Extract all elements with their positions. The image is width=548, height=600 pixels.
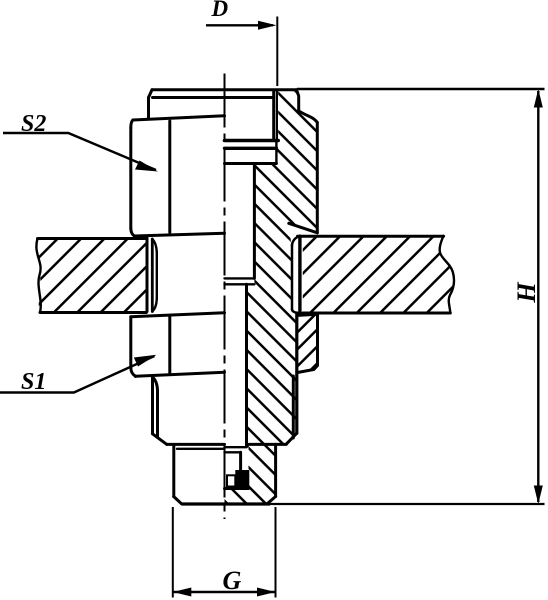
dimension D line [206,24,273,26]
stud bottom-right chamfer (section) [267,497,275,504]
stud step face right [247,443,287,446]
thread runout bottom-left [152,299,157,312]
hex S2 top edge (left view) [133,116,225,120]
stud bottom face [182,502,271,505]
hex S2 top-left corner arc [131,120,133,128]
panel right bottom edge [303,312,451,315]
S1 nut left edge [129,317,132,368]
stud right edge (section) [274,444,277,496]
top port recess edge [275,141,277,164]
arrowhead D (points right) [258,21,277,30]
hex S2 left edge [129,128,132,229]
orifice slot outline [227,475,235,486]
panel left bottom edge [40,311,146,314]
top boss left edge [147,98,150,118]
svg-text:G: G [223,566,242,595]
thread runout top-right [292,237,298,245]
arrowhead G right (points right) [257,588,276,597]
top port bore line (internal thread minor) [272,90,275,141]
shank thread major left [151,239,154,312]
svg-text:H: H [512,282,541,304]
bottom port step line 1 [225,446,247,448]
hex S2 bottom-left corner arc [131,229,135,237]
S1 nut section outline [298,314,318,372]
shoulder curve to hex flat (section) [299,111,318,123]
panel left break line [36,239,40,313]
hex S2 facet line [168,121,171,233]
top chamfer ring line [153,96,274,99]
stud left edge [172,446,175,497]
S1 nut section hatch (right half) [298,314,318,372]
thread runout top-left [152,239,157,252]
hex S2 bottom diagonal (section undercut) [289,223,318,233]
S1 nut facet line [168,316,171,375]
thread runout bottom-right [292,310,298,314]
arrowhead H top (points up) [534,89,543,108]
stud step face left [167,443,225,446]
panel left section hatch [36,239,146,313]
S1 nut bottom edge (left view) [136,372,225,376]
hex S2 right edge (section) [316,123,319,233]
panel right section hatch [303,236,454,313]
stud bottom-left chamfer [174,497,182,504]
svg-text:D: D [211,0,229,21]
thread minor right below S1 [292,376,295,438]
top port recess bottom [225,162,277,165]
dimension G line [173,591,276,593]
top port internal thread major line [276,91,278,141]
top port recess line [225,147,277,150]
thread minor right [291,245,294,310]
hex S2 bottom edge (left view) [135,233,225,236]
thread major left below S1 [151,377,154,434]
lower bore edge r22 [245,284,248,446]
dimension D extension line [276,17,278,87]
H extension line top [297,88,545,90]
bore cone step upper line [225,277,255,279]
thread major right (continues as nut bore) [298,236,301,313]
panel hole left edge [146,238,149,312]
bottom port bottom line [225,487,249,490]
panel left top edge [38,237,147,240]
panel right top edge [298,235,444,238]
panel right break line [440,236,454,313]
svg-text:S2: S2 [21,111,46,137]
top boss right edge (section) [297,90,299,111]
top boss left chamfer [149,90,153,98]
S2 leader line [3,133,156,170]
H extension line bottom [270,503,545,505]
centerline (dash-dot) [224,74,226,520]
arrowhead S1 leader (points up-right) [134,355,157,367]
thread end chamfer right [286,433,297,444]
thread minor left below S1 [153,377,158,437]
S1 leader line [0,356,155,393]
bore cone step lower line [225,283,255,285]
bottom port step line 2 [225,451,241,453]
thread major right below panel [295,313,298,433]
thread end chamfer left [153,434,167,445]
middle bore edge r30 [253,164,256,279]
bottom port thread minor line [239,452,242,487]
orifice black square [235,470,249,487]
G extension line left [172,507,174,598]
thread minor left [156,252,158,299]
S1 nut bottom-left corner arc [131,368,136,376]
top face of body boss [152,88,297,91]
body section hatch (right half of fitting, one part) [225,90,318,504]
arrowhead S2 leader (points down-right) [135,161,158,172]
G extension line right [275,507,277,598]
arrowhead H bottom (points down) [534,486,543,505]
stud top chamfer ring [177,448,225,450]
svg-text:S1: S1 [21,369,46,395]
arrowhead G left (points left) [173,588,192,597]
dimension H line [537,91,539,502]
S1 nut top edge (left view) [131,313,225,317]
top port thread end line [225,139,279,143]
